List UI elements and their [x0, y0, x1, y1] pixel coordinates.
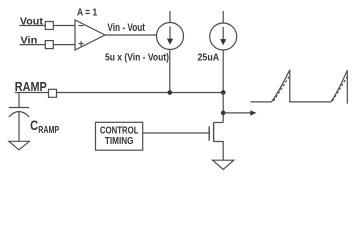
svg-text:Vin - Vout: Vin - Vout — [107, 22, 145, 34]
node Vout label — [20, 16, 44, 27]
junction dot I2/RAMP — [221, 90, 226, 95]
terminal square Vout — [45, 22, 53, 30]
wire RAMP rail down to transistor drain — [222, 93, 224, 123]
wire Vout terminal to op-amp inverting input — [53, 25, 75, 27]
transistor Q1 gate bar — [208, 126, 210, 140]
current source I2 supply stub — [222, 11, 224, 23]
wire RAMP branch down to capacitor — [18, 93, 20, 108]
current source I1 circle — [157, 23, 184, 50]
control timing block — [96, 122, 143, 150]
svg-text:25uA: 25uA — [198, 52, 220, 63]
svg-text:A = 1: A = 1 — [77, 8, 98, 19]
wire Vin terminal to op-amp non-inverting input — [53, 44, 75, 46]
svg-text:RAMP: RAMP — [15, 79, 47, 94]
capacitor CRAMP label — [30, 117, 59, 136]
node Vin label — [20, 36, 37, 47]
ground GND2 below transistor — [213, 160, 234, 169]
wire capacitor to ground — [18, 112, 20, 142]
node RAMP label — [15, 79, 47, 94]
current source I2 value label 25uA — [198, 52, 220, 63]
op-amp U1 body — [75, 20, 105, 50]
svg-text:TIMING: TIMING — [105, 136, 134, 147]
current source I1 supply stub — [169, 11, 171, 23]
waveform ramp solid trace — [251, 70, 348, 104]
wire op-amp output to current source I1 — [105, 34, 157, 36]
waveform ideal ramp dashed trace — [274, 76, 348, 101]
wire control timing to transistor gate — [143, 132, 209, 134]
transistor Q1 channel bar — [213, 123, 215, 142]
node label Vin - Vout — [107, 22, 145, 34]
svg-text:RAMP: RAMP — [38, 125, 59, 136]
terminal square Vin — [45, 41, 53, 49]
ground GND1 below capacitor — [9, 141, 29, 150]
wire I2 to RAMP rail — [222, 50, 224, 93]
wire Vout underline — [20, 25, 46, 27]
capacitor CRAMP top plate — [9, 107, 29, 109]
junction dot I1/RAMP — [167, 90, 172, 95]
terminal square RAMP — [49, 89, 57, 97]
wire transistor drain bend — [214, 122, 224, 124]
op-amp U1 plus sign — [79, 43, 84, 45]
wire RAMP underline — [15, 92, 49, 94]
wire transistor source to ground — [214, 142, 224, 161]
op-amp U1 gain label A = 1 — [77, 8, 98, 19]
wire I1 to RAMP rail — [169, 50, 171, 93]
junction dot ramp output — [221, 111, 226, 116]
svg-text:5u x (Vin - Vout): 5u x (Vin - Vout) — [105, 52, 169, 63]
op-amp U1 minus sign — [79, 25, 84, 27]
current source I2 arrow — [222, 27, 224, 41]
current source I1 arrow — [169, 27, 171, 41]
wire Vin underline — [20, 44, 46, 46]
svg-text:C: C — [30, 117, 38, 133]
ramp output arrow — [223, 112, 251, 114]
current source I1 value label — [105, 52, 169, 63]
capacitor CRAMP curved plate — [9, 112, 29, 118]
current source I2 circle — [210, 23, 237, 50]
wire RAMP rail — [57, 92, 224, 94]
